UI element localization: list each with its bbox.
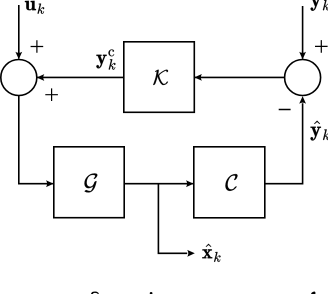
arrowhead into left summing junction (right side) <box>37 74 45 81</box>
caption fragment: top of letter f <box>91 292 99 294</box>
arrowhead at x_k output <box>187 250 195 257</box>
arrowhead into right summing junction (bottom) <box>299 96 306 104</box>
arrowhead into block K (right side) <box>194 74 202 81</box>
label: script K <box>153 70 168 85</box>
plus sign at left junction (top input) <box>31 40 44 53</box>
label: x-hat_k <box>202 244 220 262</box>
plus sign at left junction (right input) <box>45 88 58 101</box>
wire: input y_k into right summing junction <box>302 6 304 59</box>
label: y-hat_k estimate <box>311 121 328 141</box>
plus sign at right junction (top input) <box>315 40 328 53</box>
wire: left junction output down and right into block G <box>18 96 53 184</box>
summing junction S2 (right) <box>285 60 321 96</box>
label: u_k input <box>25 1 44 14</box>
wire: G output to block C <box>124 183 193 185</box>
arrowhead into block G <box>46 180 54 187</box>
wire: input u_k into left summing junction <box>18 5 20 59</box>
label: script C <box>225 174 237 191</box>
wire: state estimate tap down to x_k arrow <box>158 185 188 254</box>
caption fragment: dot of letter i <box>150 292 153 295</box>
wire: right junction output to block K <box>195 76 284 78</box>
label: y_k input <box>311 0 328 11</box>
wire: C output right and up into right summing junction <box>265 103 303 184</box>
label: script G <box>85 173 98 192</box>
arrowhead into left summing junction (top) <box>15 52 22 60</box>
summing junction S1 (left) <box>1 60 37 96</box>
label: y_k^c control signal <box>96 49 115 69</box>
arrowhead into block C <box>186 180 194 187</box>
caption fragment: top of ascender <box>311 292 315 295</box>
block K (controller) <box>124 42 195 113</box>
wire: K output y_k^c into left summing junction <box>37 76 123 78</box>
minus sign at right junction (bottom input) <box>279 109 291 111</box>
block G (plant) <box>54 147 124 218</box>
block C (estimator) <box>194 147 265 218</box>
arrowhead into right summing junction (top) <box>299 52 306 60</box>
